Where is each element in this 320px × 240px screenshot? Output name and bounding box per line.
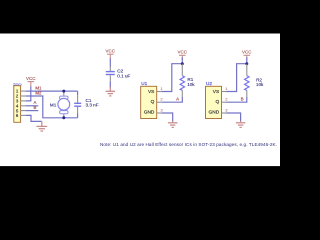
resistor R1 — [180, 64, 184, 97]
wire U1 Q to R1 bottom, net A — [162, 97, 183, 102]
wire U1 GND to ground — [162, 113, 173, 121]
svg-text:M2: M2 — [35, 91, 42, 96]
svg-text:GND: GND — [209, 110, 220, 116]
wire net A stub (pin4) — [26, 105, 39, 107]
U2 pin numbers — [225, 86, 228, 113]
svg-text:10k: 10k — [187, 82, 195, 87]
svg-text:Note: U1 and U2 are Hall Effec: Note: U1 and U2 are Hall Effect sensor I… — [100, 142, 277, 147]
svg-text:VCC: VCC — [106, 49, 116, 54]
U2 pin stubs — [222, 92, 227, 114]
ground symbol below U2 — [236, 121, 246, 128]
background white band — [0, 34, 280, 167]
connector pin numbers 1-6 — [16, 89, 19, 118]
svg-text:VS: VS — [213, 89, 219, 95]
junction dot motor top — [62, 90, 65, 93]
wire net GND from pin6 to ground — [26, 115, 42, 121]
ground symbol below connector — [36, 121, 47, 131]
connector J1 6-pin body — [14, 86, 21, 123]
svg-text:2mm: 2mm — [13, 81, 22, 86]
resistor R2 — [245, 64, 249, 97]
wire U2 GND to ground — [227, 113, 241, 121]
svg-text:Q: Q — [215, 99, 219, 105]
wire net B stub (pin5) — [26, 110, 39, 112]
svg-text:U2: U2 — [206, 81, 212, 86]
U1 pin names — [144, 89, 155, 116]
U2 pin names — [209, 89, 220, 116]
VCC symbol at U2/R2 — [244, 55, 251, 59]
wire net M1 (pin1 to motor loop top / C1 top) — [26, 90, 78, 92]
svg-text:VCC: VCC — [26, 76, 36, 81]
svg-text:3.3 nF: 3.3 nF — [86, 103, 99, 108]
U1 pin stubs — [157, 92, 162, 114]
connector pin stubs — [20, 91, 25, 115]
svg-text:A: A — [176, 97, 179, 102]
svg-text:B: B — [34, 105, 37, 110]
wire U2 Q to R2 bottom, net B — [227, 97, 247, 102]
motor M1 — [58, 91, 70, 118]
svg-text:GND: GND — [144, 110, 155, 116]
wire net M2 (pin2 right, down, along loop bottom to C1) — [26, 96, 78, 118]
capacitor C2 — [106, 59, 115, 88]
wire U1 VS to VCC node — [162, 64, 183, 92]
ground symbol below U1 — [168, 121, 178, 128]
IC U2 body — [206, 86, 222, 118]
svg-text:0.1 uF: 0.1 uF — [117, 73, 130, 78]
svg-text:VS: VS — [148, 89, 154, 95]
svg-text:M1: M1 — [50, 102, 57, 107]
wire net VCC from pin3 up to VCC symbol — [26, 86, 31, 101]
capacitor C1 — [74, 91, 81, 118]
svg-text:Q: Q — [151, 99, 155, 105]
wire U2 VS to VCC node — [227, 64, 247, 92]
VCC symbol at connector — [28, 82, 35, 87]
U1 pin numbers — [160, 86, 163, 113]
junction dot U2 VCC node — [245, 62, 248, 65]
svg-text:VCC: VCC — [178, 50, 188, 55]
svg-text:U1: U1 — [141, 81, 147, 86]
svg-text:10k: 10k — [256, 82, 264, 87]
VCC symbol at C2 — [107, 54, 114, 59]
junction dot U1 VCC node — [181, 62, 184, 65]
IC U1 body — [141, 86, 157, 118]
svg-text:VCC: VCC — [242, 50, 252, 55]
svg-text:B: B — [241, 97, 244, 102]
VCC symbol at U1/R1 — [179, 55, 186, 59]
svg-text:6: 6 — [16, 113, 19, 118]
junction dot motor bottom — [62, 116, 65, 119]
ground symbol below C2 — [106, 87, 116, 96]
